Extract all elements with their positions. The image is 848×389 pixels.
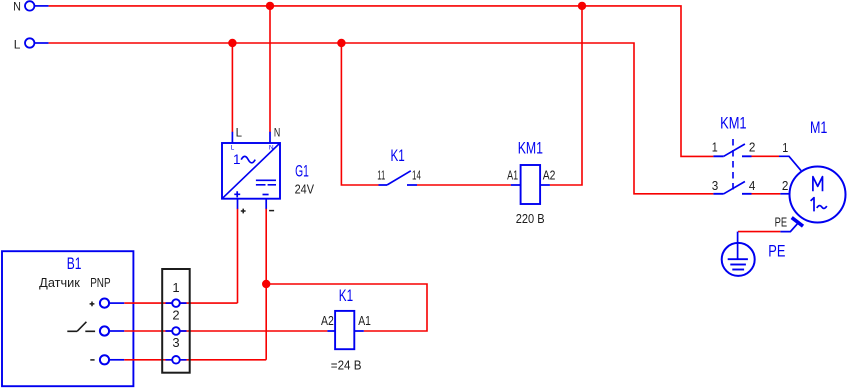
svg-text:K1: K1 — [339, 286, 353, 305]
contact KM1 pole 1 — [713, 155, 751, 157]
PE lead — [780, 224, 797, 232]
mechanical link dashed — [732, 139, 734, 192]
terminal B1 plus — [100, 299, 109, 308]
wire K1 contact to KM1 coil — [417, 184, 511, 186]
wire row1 (+ to G1) — [124, 302, 237, 304]
wire N bus — [49, 6, 714, 157]
svg-text:1: 1 — [233, 152, 241, 167]
svg-text:A2: A2 — [321, 313, 334, 328]
ground PE symbol — [722, 243, 755, 276]
wire row2 (out to K1 coil) — [124, 330, 327, 332]
svg-text:G1: G1 — [295, 161, 309, 180]
wire KM1 coil to N bus — [550, 6, 582, 185]
svg-text:A1: A1 — [507, 168, 518, 183]
terminal block X1 — [162, 269, 190, 373]
wire contact1 to motor — [752, 155, 780, 157]
svg-text:2: 2 — [172, 307, 179, 322]
wire K1 coil loop — [266, 284, 427, 331]
svg-text:220 В: 220 В — [516, 212, 545, 226]
G1 DC symbol — [256, 179, 276, 181]
wire L stub — [35, 42, 49, 44]
block stub row2 — [166, 330, 187, 332]
terminal B1 out — [100, 326, 109, 335]
svg-text:1: 1 — [712, 141, 718, 155]
svg-text:N: N — [13, 0, 21, 14]
wire row3 (- to G1) — [124, 359, 266, 361]
svg-text:A2: A2 — [543, 168, 556, 183]
svg-text:PE: PE — [768, 242, 785, 261]
svg-text:3: 3 — [712, 179, 719, 193]
svg-text:14: 14 — [412, 168, 421, 182]
svg-text:KM1: KM1 — [720, 114, 747, 133]
wire contact2 to motor — [752, 193, 781, 195]
wire PE — [738, 231, 780, 233]
junction dot on L at K1 branch — [337, 39, 345, 47]
B1 stub row2 — [109, 330, 124, 332]
svg-text:KM1: KM1 — [518, 139, 543, 158]
svg-text:11: 11 — [377, 168, 385, 182]
svg-text:Датчик: Датчик — [39, 276, 80, 290]
B1 stub row1 — [109, 302, 124, 304]
terminal B1 minus — [100, 355, 109, 364]
svg-text:PNP: PNP — [90, 276, 110, 290]
svg-text:L: L — [236, 128, 243, 140]
contact KM1 pole 2 — [713, 193, 751, 195]
wire L to K1 contact — [341, 43, 378, 185]
block stub row3 — [166, 359, 187, 361]
wire N to G1 input — [269, 6, 271, 132]
wire L bus — [49, 43, 714, 194]
coil K1 — [335, 311, 354, 349]
svg-text:3: 3 — [172, 335, 179, 350]
svg-text:M1: M1 — [810, 118, 827, 137]
junction dot on N at G1 — [266, 2, 274, 10]
svg-text:2: 2 — [749, 141, 756, 155]
svg-text:K1: K1 — [391, 146, 405, 165]
motor lead 1 — [779, 156, 801, 170]
power supply G1 box — [222, 143, 280, 199]
label + below G1 — [241, 209, 246, 214]
svg-text:N: N — [269, 145, 274, 152]
junction dot K1 loop — [262, 280, 270, 288]
svg-text:=24 В: =24 В — [331, 357, 362, 372]
wire G1 minus output — [265, 199, 267, 210]
svg-text:B1: B1 — [67, 254, 82, 273]
wire G1 plus output — [237, 199, 239, 210]
contact K1 — [379, 184, 418, 186]
wire N stub — [35, 5, 49, 7]
B1 stub row3 — [109, 359, 124, 361]
label - below G1 — [269, 210, 274, 212]
wire L to G1 input — [231, 43, 233, 132]
svg-text:L: L — [231, 145, 235, 152]
switch symbol — [67, 322, 95, 332]
label + (B1) — [90, 302, 95, 307]
label - (B1) — [90, 359, 94, 361]
terminal N — [25, 1, 34, 10]
svg-text:L: L — [14, 37, 21, 51]
junction dot on N at KM1 branch — [578, 2, 586, 10]
svg-text:1: 1 — [782, 141, 788, 155]
svg-text:1: 1 — [172, 280, 179, 295]
G1 diagonal — [222, 143, 280, 199]
terminal L — [25, 38, 34, 47]
sensor B1 box — [2, 251, 133, 386]
ground lead — [737, 232, 739, 260]
block terminal 3 — [172, 356, 180, 364]
G1 minus (inside) — [263, 194, 269, 196]
svg-text:PE: PE — [775, 214, 788, 229]
junction dot on L at G1 — [228, 39, 236, 47]
motor M1 — [790, 167, 846, 223]
svg-text:4: 4 — [749, 179, 756, 193]
G1 plus (inside) — [234, 191, 240, 197]
block terminal 1 — [172, 299, 180, 307]
block terminal 2 — [172, 327, 180, 335]
svg-text:A1: A1 — [358, 313, 371, 328]
motor lead 2 — [780, 193, 790, 195]
coil KM1 — [521, 165, 541, 204]
block stub row1 — [166, 302, 187, 304]
svg-text:24V: 24V — [295, 182, 315, 197]
PE terminal stroke — [792, 218, 803, 227]
svg-text:N: N — [274, 128, 280, 140]
svg-text:2: 2 — [782, 179, 789, 193]
